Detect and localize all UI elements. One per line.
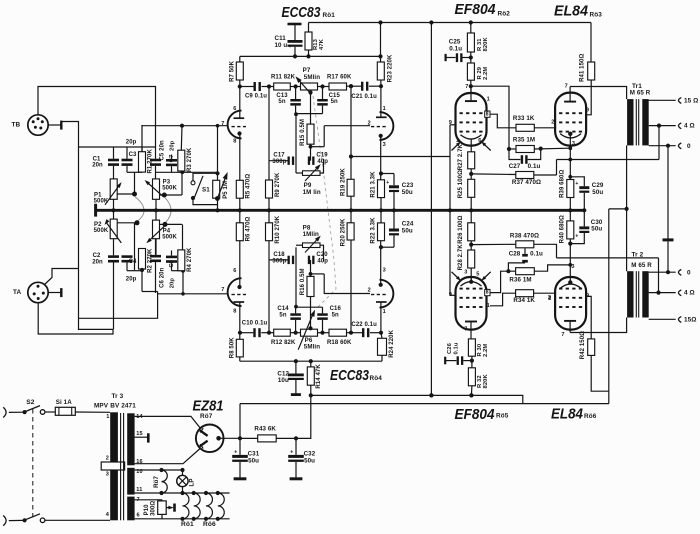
svg-text:C16: C16 (330, 306, 342, 312)
svg-text:40p: 40p (317, 159, 328, 165)
resistor R43 6K (240, 426, 298, 442)
resistor R35 1M (507, 137, 572, 153)
wire R2 bottom riser to lower grid line (141, 271, 143, 292)
transformer Tr1 (627, 83, 651, 145)
svg-text:Rö7: Rö7 (200, 413, 213, 420)
capacitor C15 5n (317, 87, 340, 114)
svg-text:20p: 20p (126, 277, 137, 283)
svg-text:8: 8 (486, 111, 489, 117)
svg-text:20p: 20p (126, 139, 137, 145)
svg-text:+: + (234, 450, 237, 456)
resistor R28 2.7K (458, 244, 475, 282)
node P7 R17 C15 (320, 84, 324, 88)
svg-text:ECC83: ECC83 (330, 367, 370, 384)
svg-text:20p: 20p (169, 140, 175, 151)
capacitor C16 5n (317, 306, 341, 333)
svg-text:P10: P10 (144, 504, 150, 516)
svg-text:2.2M: 2.2M (483, 344, 489, 357)
transformer Tr3 primary winding (106, 412, 118, 520)
wire P4 wiper riser (182, 224, 184, 270)
wire tap10 heater line (135, 468, 185, 472)
svg-text:C14: C14 (277, 306, 289, 312)
svg-text:C4: C4 (129, 259, 137, 265)
svg-text:5Mlin: 5Mlin (304, 344, 320, 351)
svg-text:4 Ω: 4 Ω (684, 123, 695, 130)
node R7 C9 anode (238, 84, 242, 88)
svg-text:R12 82K: R12 82K (271, 340, 296, 346)
svg-text:3: 3 (571, 264, 574, 270)
wire feedback riser 4ohm (658, 126, 660, 160)
heater loop (183, 493, 189, 519)
wire Tr1 primary to B+ node (609, 145, 629, 211)
transformer Tr2 (627, 251, 652, 317)
svg-text:1: 1 (106, 414, 109, 420)
resistor R23 220K (377, 20, 393, 86)
transformer Tr3 secondary windings (127, 413, 143, 520)
svg-text:R19 250K: R19 250K (341, 168, 347, 196)
title ECC83 Ro1 (282, 4, 336, 21)
resistor R3 270K (178, 124, 193, 172)
svg-text:7: 7 (221, 121, 224, 127)
wire upper grid line (141, 125, 228, 127)
svg-text:7: 7 (464, 326, 467, 332)
svg-text:R36 1M: R36 1M (509, 277, 531, 284)
title EZ81 Ro7 (193, 398, 224, 420)
svg-text:R20 250K: R20 250K (341, 218, 347, 246)
capacitor C25 0.1u (446, 39, 471, 62)
svg-text:8: 8 (233, 308, 236, 314)
wire tap11 heater line (135, 491, 230, 495)
svg-text:15 Ω: 15 Ω (684, 97, 698, 104)
svg-text:LP: LP (188, 478, 195, 486)
svg-text:C21 0.1u: C21 0.1u (351, 94, 377, 100)
svg-text:8: 8 (233, 138, 236, 144)
svg-text:14: 14 (136, 414, 143, 420)
ground bus y=210.3 (96, 209, 585, 212)
svg-text:BV 2471: BV 2471 (110, 402, 136, 409)
wire EF804 lower pin1 to R34 (490, 293, 516, 306)
svg-text:Rö6: Rö6 (584, 413, 597, 420)
wire tone riser x=324 upper (309, 126, 325, 149)
svg-text:R5 470Ω: R5 470Ω (245, 174, 251, 199)
resistor R41 150 (579, 23, 594, 115)
svg-text:C13: C13 (276, 93, 288, 99)
svg-text:+: + (289, 44, 292, 50)
tube EF804 Ro2 upper (449, 84, 491, 152)
svg-text:+: + (575, 233, 578, 239)
resistor R7 50K (229, 56, 243, 86)
wire upper node row left segment (127, 171, 142, 173)
svg-text:R39 680Ω: R39 680Ω (560, 170, 566, 198)
junction on ground bus (215, 208, 219, 212)
svg-text:R23 220K: R23 220K (387, 54, 393, 82)
svg-text:Rö5: Rö5 (496, 412, 509, 419)
svg-text:0.1u: 0.1u (454, 342, 460, 354)
resistor R27 2.7K (458, 143, 475, 179)
svg-text:Si 1A: Si 1A (56, 399, 72, 406)
capacitor C10 0.1u (238, 321, 269, 338)
svg-text:C18: C18 (273, 252, 285, 258)
wire tap6 heater line (135, 517, 230, 521)
svg-text:P4: P4 (163, 228, 171, 234)
wire preamp supply bus y=56.4 (240, 55, 381, 57)
resistor R42 150 (580, 296, 609, 391)
switch S1 (191, 173, 218, 204)
wire TB right pin to terminator bar (48, 121, 61, 130)
svg-text:11: 11 (136, 487, 142, 493)
svg-text:S1: S1 (202, 186, 210, 193)
output tap 4 ohm (649, 123, 695, 130)
svg-text:C9 0.1u: C9 0.1u (245, 94, 267, 100)
resistor R29 2.2M (467, 55, 489, 93)
svg-text:1: 1 (487, 303, 490, 309)
transformer Tr3 label (94, 393, 136, 409)
svg-text:5n: 5n (279, 312, 286, 318)
svg-text:7: 7 (561, 332, 564, 338)
junction on ground bus (154, 208, 158, 212)
wire ground riser from 0 tap (667, 146, 669, 239)
wire pot column B leads (155, 199, 157, 255)
title EL84 Ro6 (551, 406, 597, 423)
svg-text:C15: C15 (329, 93, 341, 99)
wire P1 wiper riser (134, 172, 136, 194)
capacitor C2 (92, 239, 119, 330)
resistor R37 470 (471, 172, 556, 187)
input connector TB (12, 115, 49, 135)
resistor R40 680 (560, 210, 574, 282)
svg-text:500K: 500K (94, 228, 109, 234)
svg-text:R14 47K: R14 47K (316, 364, 322, 389)
input connector TA (13, 282, 48, 302)
svg-text:R38 470Ω: R38 470Ω (510, 233, 539, 240)
potentiometer P2 (94, 219, 140, 243)
junction on ground bus (111, 208, 115, 212)
wire P3 wiper riser (180, 170, 184, 195)
capacitor C4 20p (122, 255, 138, 282)
fuse Si 1A (45, 399, 76, 415)
svg-text:S2: S2 (26, 399, 34, 406)
wire pot column A leads (113, 199, 115, 219)
transformer Tr3 voltage selector (101, 462, 124, 470)
wire feedback upper y=159.5 (557, 158, 660, 162)
svg-text:20n: 20n (92, 259, 103, 265)
svg-text:0.1u: 0.1u (528, 163, 541, 170)
potentiometer P9 1M lin (296, 159, 324, 196)
capacitor C32 50u (288, 438, 316, 478)
svg-text:3: 3 (106, 471, 109, 477)
resistor R38 470 (471, 233, 556, 258)
svg-text:R33 1K: R33 1K (513, 115, 535, 122)
svg-text:R34 1K: R34 1K (513, 297, 535, 304)
svg-text:4 Ω: 4 Ω (684, 290, 695, 297)
svg-text:7: 7 (465, 84, 468, 90)
wire B+ vertical x=608.8 (608, 209, 610, 404)
svg-text:8: 8 (486, 290, 489, 296)
svg-text:1Mlin: 1Mlin (303, 231, 319, 238)
tube EF804 Ro5 lower (449, 269, 491, 338)
svg-text:50u: 50u (402, 189, 413, 196)
svg-text:Rö2: Rö2 (498, 11, 511, 18)
junction on ground bus (469, 208, 473, 212)
svg-text:+: + (386, 180, 389, 186)
svg-text:50u: 50u (591, 226, 602, 233)
svg-text:5n: 5n (331, 99, 338, 105)
svg-text:+: + (575, 181, 578, 187)
svg-text:C8: C8 (169, 259, 175, 267)
svg-text:10u: 10u (278, 377, 289, 384)
wire EL84 anode to Tr1 (570, 87, 627, 100)
resistor R34 1K (513, 290, 556, 304)
capacitor C5 (150, 140, 165, 179)
wire C13-C15 bottoms (296, 113, 323, 115)
resistor R6 470 (236, 210, 251, 287)
svg-text:R6 470Ω: R6 470Ω (245, 216, 251, 241)
svg-text:9: 9 (449, 120, 452, 126)
svg-text:R25 100Ω: R25 100Ω (458, 170, 464, 198)
svg-text:EL84: EL84 (554, 3, 589, 20)
svg-text:R40 680Ω: R40 680Ω (560, 215, 566, 243)
resistor R19 250K (341, 84, 355, 210)
heater loop (218, 493, 224, 519)
wire C14-C16 tops (296, 306, 323, 308)
svg-text:R24 220K: R24 220K (389, 329, 395, 357)
wire TA right pin to terminator bar (48, 288, 61, 297)
junction on ground bus (448, 208, 452, 212)
wire lower grid line to right triode (324, 293, 370, 295)
wire raw B+ left riser (239, 404, 241, 439)
svg-text:15Ω: 15Ω (684, 316, 697, 323)
wire TA top pin link (45, 269, 79, 285)
svg-text:C3: C3 (129, 152, 137, 158)
svg-text:R9 270K: R9 270K (275, 172, 281, 197)
junction on ground bus (568, 208, 572, 212)
svg-text:5Mlin: 5Mlin (304, 74, 320, 81)
wire lower treble row y=259.9 (269, 259, 288, 261)
svg-text:R11 82K: R11 82K (271, 75, 296, 81)
svg-text:R7 50K: R7 50K (229, 60, 235, 82)
svg-text:Rö4: Rö4 (370, 375, 383, 382)
wire TB top lead to x=155.5 column (38, 87, 156, 148)
resistor R8 50K (229, 333, 243, 362)
svg-text:C17: C17 (273, 153, 285, 159)
capacitor C1 (92, 147, 119, 179)
resistor R9 270K (266, 87, 281, 211)
svg-text:3: 3 (464, 269, 467, 275)
triode ECC83d lower-right (368, 267, 394, 332)
svg-text:TA: TA (13, 289, 22, 296)
svg-text:C10 0.1u: C10 0.1u (242, 321, 268, 327)
resistor R4 270K (178, 247, 193, 272)
wire lower tone riser x=324 (309, 272, 325, 294)
capacitor C11 10u (275, 24, 303, 59)
svg-text:R26 100Ω: R26 100Ω (458, 215, 464, 243)
resistor R25 100 (458, 170, 475, 210)
node C9 R11 (267, 84, 271, 88)
resistor R17 60K (323, 75, 352, 90)
triode ECC83a upper-left (221, 87, 246, 145)
heater loop (206, 493, 212, 519)
svg-text:C5 20n: C5 20n (159, 140, 165, 161)
output tap 4 ohm lower (649, 290, 695, 297)
svg-text:Rö7: Rö7 (153, 475, 160, 487)
output tap 0 lower (649, 241, 691, 276)
svg-text:Rö6: Rö6 (203, 521, 216, 528)
svg-text:9: 9 (586, 108, 589, 114)
wire y=147 feed line (79, 146, 156, 148)
junction on ground bus (267, 208, 271, 212)
switch S2 lower pole (9, 514, 45, 523)
wire grid line to upper-right triode (324, 125, 370, 127)
capacitor C3 20p (122, 139, 138, 172)
svg-text:15: 15 (136, 431, 142, 437)
capacitor C24 50u (381, 210, 414, 247)
wire main B+ top bus y=22.5 (309, 22, 592, 24)
svg-text:6: 6 (233, 268, 236, 274)
mains terminal upper (3, 399, 35, 418)
resistor R5 470 (236, 134, 251, 211)
wire interstage line y=156.5 (351, 156, 450, 158)
svg-text:C6 20n: C6 20n (159, 267, 165, 288)
wire from TB pin bar to x=78.5 vertical (61, 122, 113, 330)
resistor R12 82K (269, 329, 296, 346)
resistor R31 820K (467, 20, 489, 57)
resistor R33 1K (513, 115, 556, 131)
heater loop (194, 493, 200, 519)
resistor R1 270K (139, 147, 154, 174)
resistor R10 270K (266, 210, 281, 332)
ganging curve P1-P2 (135, 197, 144, 222)
svg-text:6: 6 (478, 138, 481, 144)
wire lower B+ bus y=395.4 (311, 393, 523, 403)
svg-text:R41 150Ω: R41 150Ω (579, 54, 585, 82)
node C10 R12 (267, 331, 271, 335)
switch S2 gang dashed link (32, 409, 34, 518)
wire raw B+ line y=403.6 (240, 403, 609, 405)
resistor R36 1M (509, 263, 572, 284)
potentiometer P1 (94, 179, 137, 205)
svg-text:P1: P1 (94, 193, 102, 199)
node R11 P7 C13 (294, 84, 298, 88)
svg-text:C2: C2 (93, 253, 101, 259)
capacitor C26 0.1u (445, 342, 472, 365)
resistor R26 100 (458, 210, 475, 250)
transformer Tr3 core (121, 413, 124, 520)
title EF804 Ro5 (455, 406, 509, 423)
potentiometer P6 5M lin (296, 309, 323, 351)
capacitor C17 300p (272, 153, 294, 166)
svg-text:50u: 50u (402, 227, 413, 234)
svg-text:20p: 20p (169, 278, 175, 289)
wire y=318.3 link line (79, 294, 158, 319)
svg-text:C22 0.1u: C22 0.1u (351, 322, 377, 328)
svg-text:0: 0 (687, 269, 691, 276)
svg-text:R42 150Ω: R42 150Ω (580, 331, 586, 359)
svg-text:R18 60K: R18 60K (327, 340, 352, 346)
svg-text:0.1u: 0.1u (449, 45, 462, 52)
heater Ro7 (153, 470, 167, 493)
svg-text:R10 270K: R10 270K (275, 215, 281, 243)
svg-text:0.1u: 0.1u (530, 250, 543, 257)
svg-text:0: 0 (687, 143, 691, 150)
capacitor C27 0.1u (509, 149, 541, 170)
potentiometer P10 300 (144, 501, 175, 519)
wire EF804 anode to R33 (490, 114, 516, 128)
svg-text:40p: 40p (317, 259, 328, 265)
capacitor C21 0.1u (349, 82, 383, 101)
svg-text:+: + (290, 450, 293, 456)
capacitor C23 50u (381, 174, 414, 211)
potentiometer P3 (143, 179, 182, 200)
wire riser R4 row to lower grid line (181, 271, 185, 296)
svg-text:R27 2.7K: R27 2.7K (458, 143, 464, 170)
wire P2 wiper riser (135, 223, 138, 270)
wire upper node row right segment (156, 171, 218, 173)
junction on ground bus (349, 208, 353, 212)
potentiometer P4 (145, 220, 182, 245)
svg-text:5n: 5n (278, 99, 285, 105)
resistor R11 82K (269, 75, 296, 90)
triode ECC83c lower-left (221, 268, 246, 333)
resistor R14 47K (307, 361, 322, 397)
resistor R30 2.2M (468, 339, 489, 368)
pilot lamp LP (177, 470, 196, 493)
title EF804 Ro2 (455, 1, 511, 18)
svg-text:1: 1 (383, 309, 386, 315)
svg-text:R15 0.5M: R15 0.5M (300, 119, 306, 146)
svg-text:Rö3: Rö3 (590, 12, 603, 19)
svg-text:ECC83: ECC83 (282, 4, 322, 21)
capacitor C7 20p (166, 140, 177, 172)
wire feedback lower riser to 4ohm tap (658, 258, 660, 293)
svg-text:TB: TB (12, 121, 21, 128)
svg-text:2.2M: 2.2M (483, 67, 489, 80)
output tap 15 ohm lower (649, 316, 697, 323)
resistor R20 250K (341, 210, 355, 332)
junction on ground bus (392, 208, 396, 212)
svg-text:MPV: MPV (94, 402, 109, 409)
svg-text:5: 5 (476, 272, 479, 278)
svg-text:3: 3 (572, 141, 575, 147)
resistor R18 60K (323, 329, 352, 346)
capacitor C31 50u (232, 438, 260, 478)
capacitor C20 40p (308, 252, 328, 265)
svg-text:R35 1M: R35 1M (513, 137, 535, 144)
svg-text:2: 2 (368, 288, 371, 294)
svg-text:500K: 500K (162, 186, 177, 192)
potentiometer P8 1M lin (296, 224, 324, 261)
svg-text:EF804: EF804 (455, 406, 496, 423)
tube EL84 Ro6 lower (548, 264, 589, 338)
svg-text:47K: 47K (319, 38, 325, 50)
node R18 C22 (349, 331, 353, 335)
wire Tr2 primary top to B+ node (626, 209, 628, 271)
svg-text:R8 50K: R8 50K (229, 337, 235, 359)
ganged dashed line P7 to P6 (313, 96, 336, 309)
svg-text:R16 0.5M: R16 0.5M (300, 268, 306, 295)
svg-text:R28 2.7K: R28 2.7K (458, 244, 464, 271)
svg-text:6: 6 (233, 106, 236, 112)
capacitor C9 0.1u (240, 82, 269, 100)
svg-text:R21 3.3K: R21 3.3K (371, 171, 377, 198)
svg-text:C26: C26 (447, 342, 453, 354)
switch S2 upper pole (9, 406, 45, 415)
mains terminal lower (3, 516, 6, 526)
svg-text:EL84: EL84 (551, 406, 584, 423)
potentiometer P5 1M (213, 124, 230, 210)
junction on ground bus (379, 208, 383, 212)
svg-text:R3 270K: R3 270K (187, 147, 193, 172)
capacitor C14 5n (277, 306, 300, 333)
